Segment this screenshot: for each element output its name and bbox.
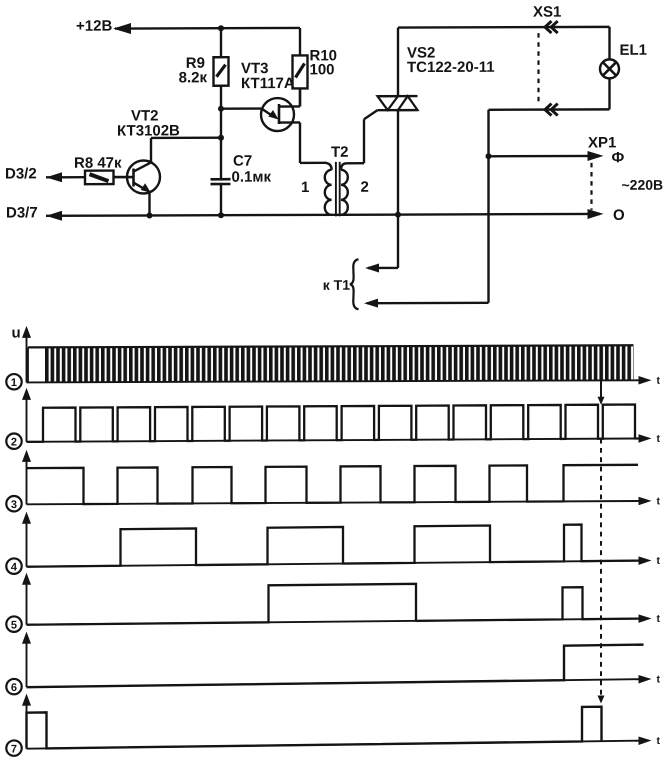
svg-text:u: u	[12, 324, 21, 341]
svg-text:+12В: +12В	[76, 18, 112, 35]
svg-text:t: t	[657, 433, 661, 445]
svg-text:4: 4	[11, 561, 18, 573]
svg-text:Ф: Ф	[612, 149, 625, 166]
svg-text:1: 1	[11, 377, 17, 389]
svg-text:t: t	[657, 673, 661, 685]
svg-text:C7: C7	[233, 153, 252, 170]
svg-text:t: t	[657, 613, 661, 625]
svg-text:к Т1: к Т1	[323, 277, 350, 293]
svg-text:100: 100	[310, 61, 335, 78]
svg-text:R8 47к: R8 47к	[74, 155, 122, 172]
svg-text:XS1: XS1	[533, 4, 561, 21]
svg-text:КТ117А: КТ117А	[241, 75, 295, 92]
svg-text:D3/2: D3/2	[5, 165, 37, 182]
svg-text:2: 2	[11, 437, 17, 449]
svg-text:t: t	[657, 495, 661, 507]
svg-text:Т2: Т2	[331, 144, 349, 161]
svg-text:2: 2	[361, 179, 369, 196]
svg-text:t: t	[657, 735, 661, 747]
svg-text:6: 6	[11, 682, 17, 694]
svg-text:t: t	[657, 375, 661, 387]
svg-text:EL1: EL1	[620, 42, 648, 59]
svg-text:t: t	[657, 555, 661, 567]
svg-text:3: 3	[11, 499, 17, 511]
svg-text:ТС122-20-11: ТС122-20-11	[407, 59, 495, 76]
svg-text:~220В: ~220В	[622, 177, 664, 193]
svg-text:7: 7	[11, 743, 17, 755]
svg-text:0.1мк: 0.1мк	[232, 169, 272, 186]
svg-text:D3/7: D3/7	[6, 204, 38, 221]
svg-text:О: О	[613, 207, 625, 224]
svg-text:1: 1	[301, 179, 309, 196]
svg-text:5: 5	[11, 619, 17, 631]
svg-text:8.2к: 8.2к	[179, 69, 208, 86]
